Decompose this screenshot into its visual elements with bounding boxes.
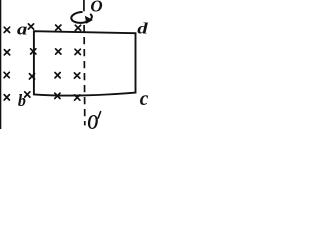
svg-text:c: c: [140, 89, 148, 110]
svg-text:O: O: [87, 111, 98, 129]
svg-text:O: O: [90, 0, 102, 15]
svg-text:d: d: [137, 20, 148, 38]
svg-text:a: a: [17, 20, 27, 39]
svg-text:b: b: [18, 91, 26, 111]
